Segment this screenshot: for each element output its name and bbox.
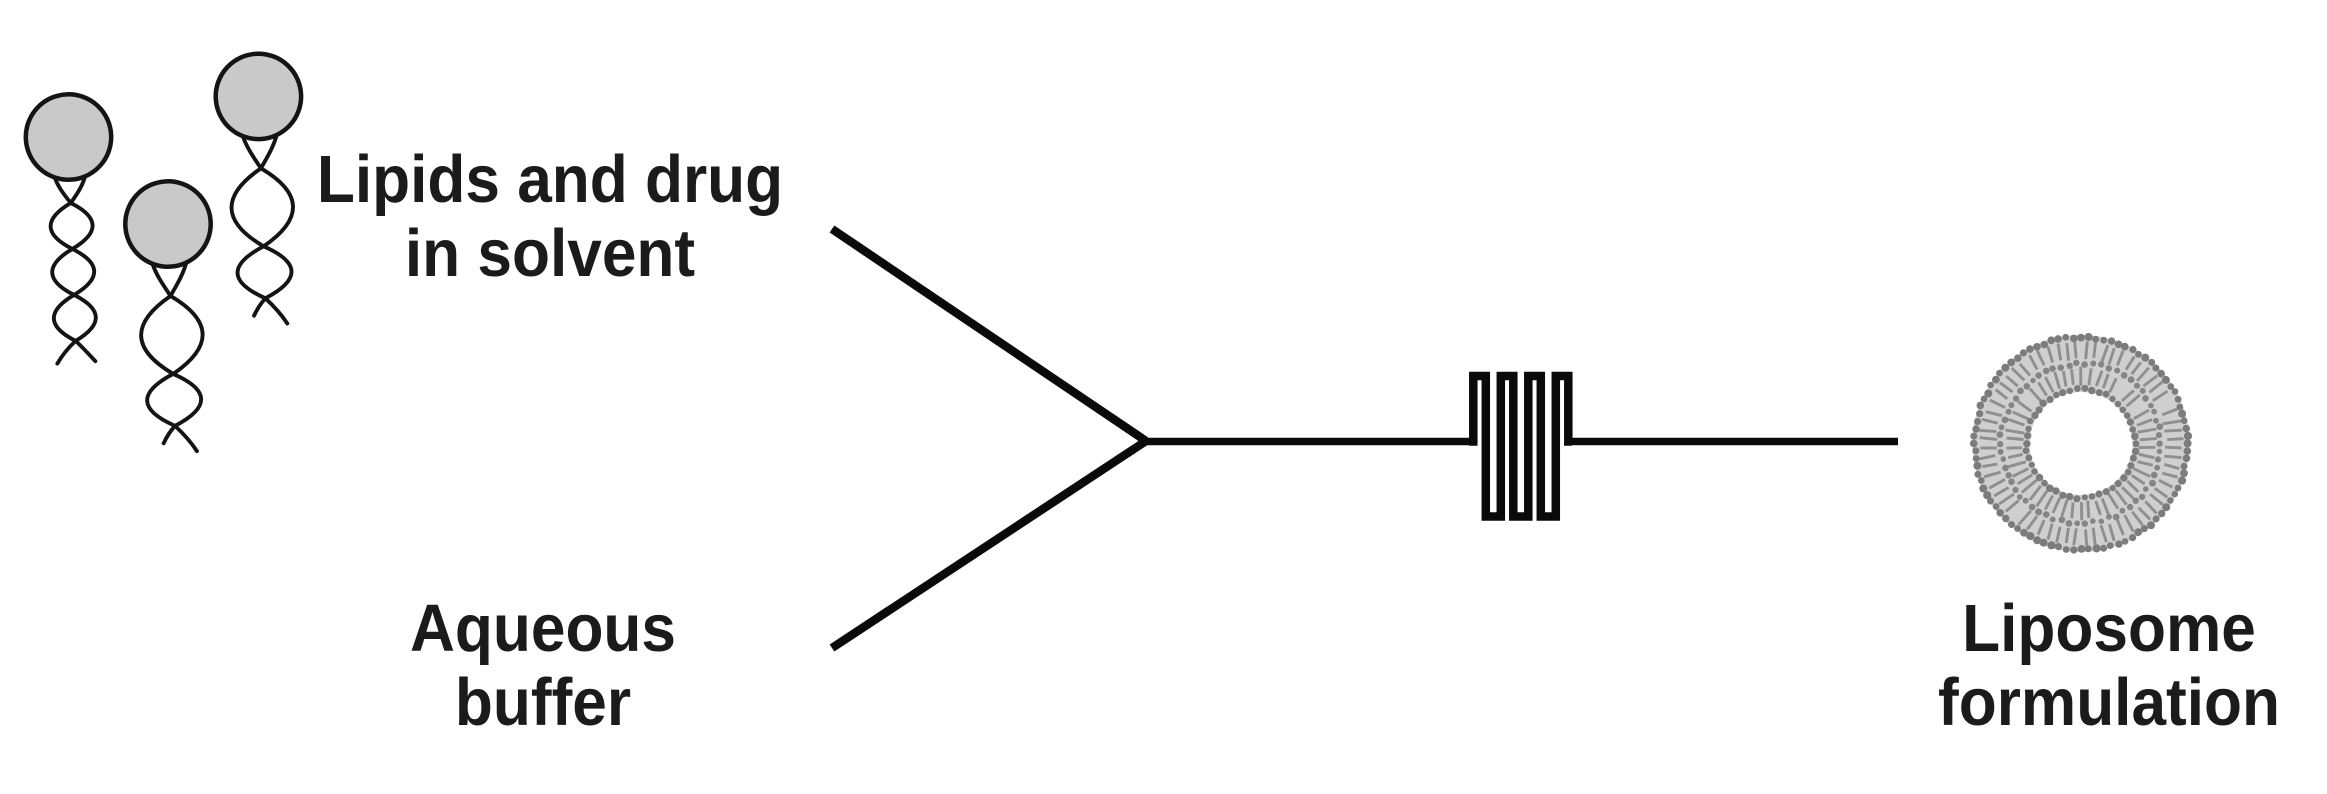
liposome membrane band (base tint) [2001,364,2161,524]
lipid molecule 1 (left) [24,93,119,365]
serpentine micromixer [1469,376,1572,517]
label: liposome formulation [1831,592,2327,740]
liposome mid-bilayer beads [1997,360,2164,527]
label: lipids and drug in solvent [272,143,829,291]
liposome outer leaflet tails [1979,342,2183,547]
main mixing channel (junction to mixer) [1141,438,1472,446]
liposome outer headgroup beads [1970,333,2192,554]
label: aqueous buffer [265,592,822,740]
lower inlet channel (aqueous buffer) [832,441,1146,648]
upper inlet channel (lipids and drug in solvent) [832,229,1146,441]
lipid molecule 2 (middle) [124,180,219,454]
lipid molecule 3 (right) [214,52,309,326]
main channel (mixer to outlet) [1570,438,1898,446]
liposome inner leaflet tails [2005,367,2156,521]
liposome inner headgroup beads [2023,385,2140,503]
